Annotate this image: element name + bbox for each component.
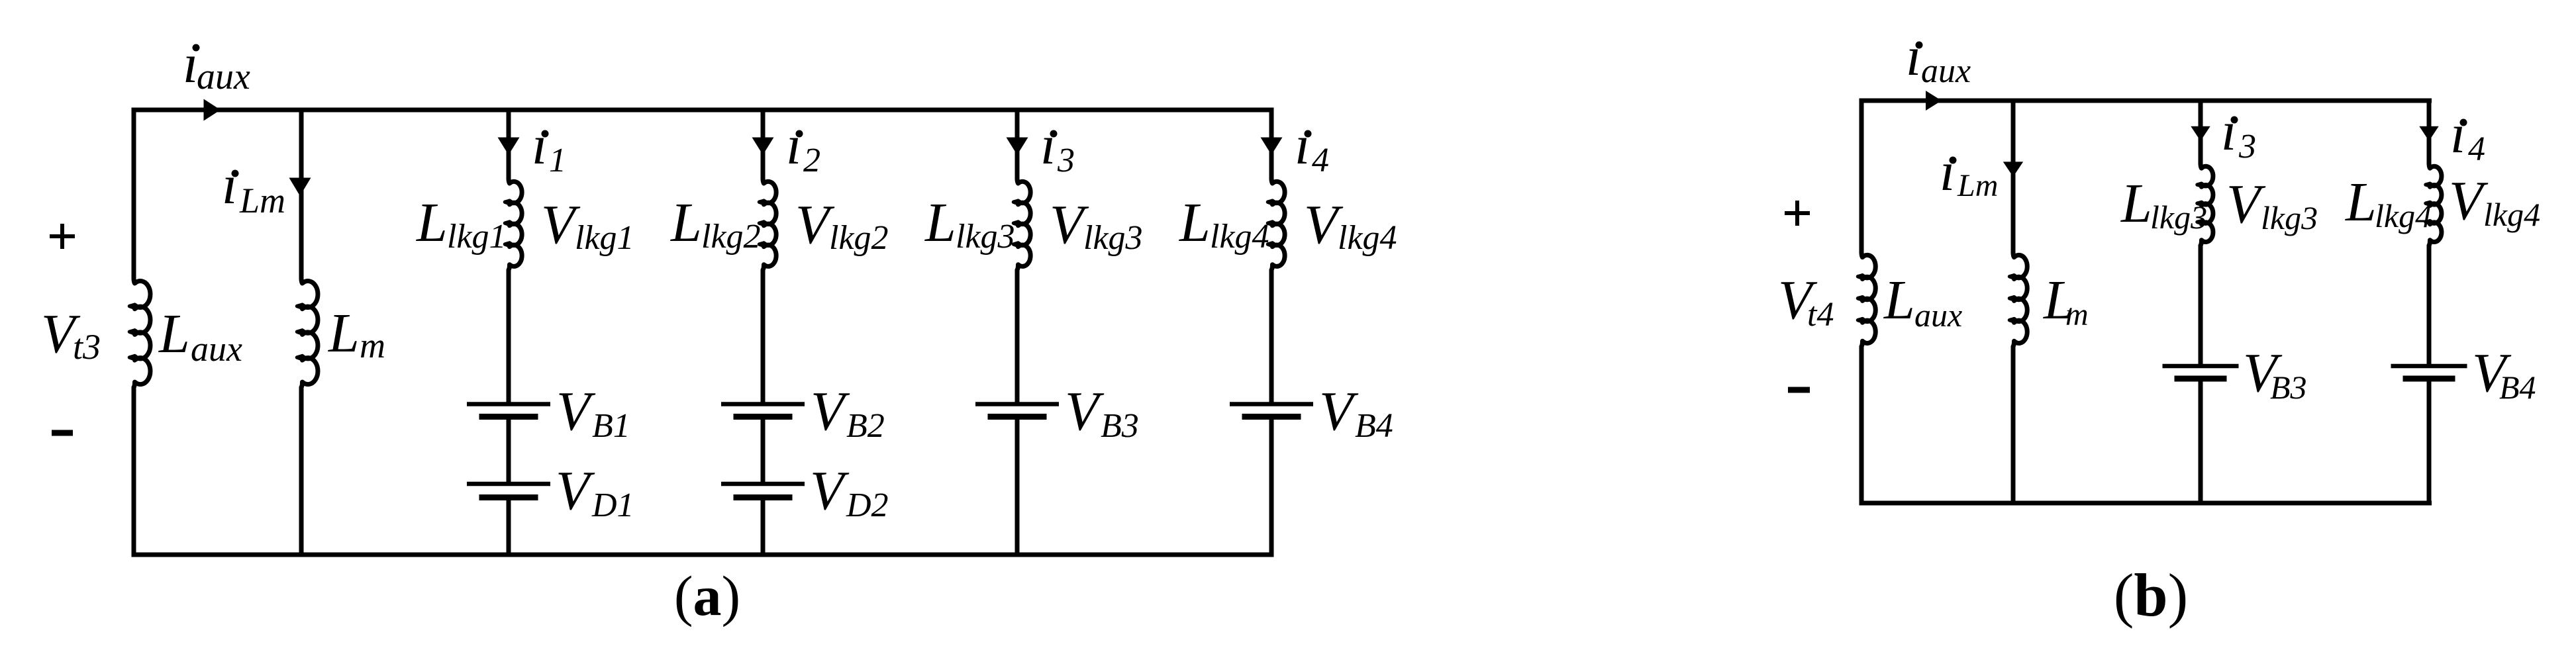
battery VB1 (a) xyxy=(467,402,550,406)
inductor Llkg4 (a) xyxy=(1271,178,1285,270)
svg-text:L: L xyxy=(158,303,190,365)
svg-text:lkg3: lkg3 xyxy=(2261,199,2318,236)
inductor Lm (b) xyxy=(2013,252,2027,347)
wire: branch 2 upper (a) xyxy=(761,110,766,179)
wire: circuit (b) bottom rail xyxy=(1861,346,2432,503)
svg-text:L: L xyxy=(2120,173,2152,234)
svg-text:ı: ı xyxy=(1295,115,1310,176)
svg-text:V: V xyxy=(810,460,850,522)
svg-text:ı: ı xyxy=(532,115,547,176)
svg-text:lkg1: lkg1 xyxy=(447,218,507,255)
wire: branch 3 upper (b) xyxy=(2199,101,2203,164)
arrow i_3 (b) xyxy=(2191,126,2210,141)
wire: circuit (a) top rail xyxy=(134,110,1274,279)
svg-text:D1: D1 xyxy=(591,487,634,524)
svg-text:ı: ı xyxy=(1906,26,1921,87)
svg-text:B4: B4 xyxy=(2499,369,2536,406)
svg-text:lkg4: lkg4 xyxy=(2483,196,2540,233)
label minus (a) xyxy=(52,430,73,436)
arrow i_2 (a) xyxy=(752,138,774,156)
svg-text:aux: aux xyxy=(197,56,250,97)
svg-text:ı: ı xyxy=(183,33,198,95)
wire: branch 1 upper (a) xyxy=(507,110,511,179)
wire: branch 4 lower (a) xyxy=(1269,420,1274,555)
inductor Llkg2 (a) xyxy=(763,178,776,270)
battery VB2 (a) xyxy=(721,402,805,406)
svg-text:(a): (a) xyxy=(674,564,740,627)
svg-text:ı: ı xyxy=(1940,141,1955,203)
svg-text:lkg2: lkg2 xyxy=(829,219,889,257)
wire: branch 2 mid (a) xyxy=(761,270,766,402)
svg-text:L: L xyxy=(670,192,702,254)
wire: branch 3 mid (a) xyxy=(1015,270,1020,402)
svg-text:V: V xyxy=(1065,381,1105,442)
svg-text:lkg4: lkg4 xyxy=(1210,218,1269,255)
svg-text:(b): (b) xyxy=(2114,561,2188,629)
svg-text:lkg3: lkg3 xyxy=(1083,219,1143,257)
svg-text:L: L xyxy=(328,302,360,364)
svg-text:aux: aux xyxy=(191,329,242,369)
svg-text:Lm: Lm xyxy=(239,181,285,220)
inductor Llkg4 (b) xyxy=(2429,163,2442,246)
svg-text:B3: B3 xyxy=(1101,407,1139,445)
svg-text:aux: aux xyxy=(1921,52,1971,90)
arrow i_aux (a) xyxy=(204,99,221,121)
svg-text:B3: B3 xyxy=(2270,369,2307,406)
inductor Laux (a) xyxy=(134,278,150,387)
svg-text:lkg4: lkg4 xyxy=(1338,219,1397,257)
svg-text:t4: t4 xyxy=(1807,296,1834,334)
svg-text:Lm: Lm xyxy=(1957,168,1998,203)
wire: branch 2 between batteries (a) xyxy=(761,420,766,483)
inductor Lm (a) xyxy=(301,278,318,387)
wire: Lm branch upper (b) xyxy=(2011,101,2016,254)
svg-text:ı: ı xyxy=(2450,103,2465,165)
label + (b) xyxy=(1785,201,1810,226)
arrow i_aux (b) xyxy=(1926,91,1942,111)
wire: Lm branch upper (a) xyxy=(299,110,304,279)
inductor Laux (b) xyxy=(1861,252,1875,347)
svg-text:L: L xyxy=(924,192,956,254)
battery VB3 (b) xyxy=(2163,364,2239,369)
svg-text:t3: t3 xyxy=(73,327,101,367)
wire: branch 1 between batteries (a) xyxy=(507,420,511,483)
svg-text:D2: D2 xyxy=(846,487,889,524)
inductor Llkg1 (a) xyxy=(509,178,522,270)
battery VD1 (a) xyxy=(467,482,550,487)
battery VB3 (a) xyxy=(975,402,1059,406)
svg-text:V: V xyxy=(811,381,850,442)
svg-text:lkg3: lkg3 xyxy=(956,218,1015,255)
wire: branch 1 mid (a) xyxy=(507,270,511,402)
battery VB4 (b) xyxy=(2391,364,2467,369)
svg-text:1: 1 xyxy=(549,142,566,179)
inductor Llkg3 (b) xyxy=(2201,163,2213,246)
arrow i_Lm (a) xyxy=(289,178,311,197)
wire: branch 3 lower (a) xyxy=(1015,420,1020,555)
svg-text:lkg4: lkg4 xyxy=(2375,197,2432,234)
svg-text:aux: aux xyxy=(1914,297,1962,334)
svg-text:V: V xyxy=(2226,173,2266,235)
svg-text:L: L xyxy=(1883,269,1915,331)
svg-text:lkg2: lkg2 xyxy=(701,218,761,255)
svg-text:L: L xyxy=(2345,171,2377,233)
svg-text:lkg1: lkg1 xyxy=(575,219,634,257)
svg-text:B4: B4 xyxy=(1355,407,1393,445)
svg-text:ı: ı xyxy=(222,154,237,216)
wire: Lm branch lower (a) xyxy=(299,387,304,555)
svg-text:3: 3 xyxy=(1057,142,1075,179)
wire: branch 4 mid (b) xyxy=(2427,246,2432,364)
arrow i_Lm (b) xyxy=(2003,162,2023,177)
svg-text:V: V xyxy=(556,381,596,442)
svg-text:V: V xyxy=(1319,381,1359,442)
svg-text:4: 4 xyxy=(1312,142,1329,179)
wire: branch 2 lower (a) xyxy=(761,500,766,555)
wire: branch 4 mid (a) xyxy=(1269,270,1274,402)
svg-text:lkg3: lkg3 xyxy=(2150,199,2207,236)
svg-text:ı: ı xyxy=(786,115,801,176)
svg-text:V: V xyxy=(556,460,595,522)
wire: branch 4 lower (b) xyxy=(2427,381,2432,503)
wire: branch 3 lower (b) xyxy=(2199,381,2203,503)
arrow i_1 (a) xyxy=(498,138,520,156)
wire: branch 4 upper (a) xyxy=(1269,110,1274,179)
svg-text:V: V xyxy=(2449,170,2489,232)
arrow i_3 (a) xyxy=(1007,138,1028,156)
wire: circuit (b) top rail xyxy=(1861,101,2432,254)
wire: branch 1 lower (a) xyxy=(507,500,511,555)
wire: branch 3 upper (a) xyxy=(1015,110,1020,179)
wire: branch 3 mid (b) xyxy=(2199,246,2203,364)
arrow i_4 (b) xyxy=(2419,126,2438,141)
arrow i_4 (a) xyxy=(1261,138,1283,156)
svg-text:L: L xyxy=(416,192,448,254)
svg-text:m: m xyxy=(360,326,385,365)
svg-text:ı: ı xyxy=(2221,101,2236,162)
wire: branch 4 upper (b) xyxy=(2427,101,2432,164)
svg-text:L: L xyxy=(1179,192,1211,254)
wire: Lm branch lower (b) xyxy=(2011,346,2016,503)
battery VD2 (a) xyxy=(721,482,805,487)
svg-text:ı: ı xyxy=(1040,115,1056,176)
svg-text:B2: B2 xyxy=(846,407,885,445)
svg-text:B1: B1 xyxy=(592,407,630,445)
svg-text:4: 4 xyxy=(2468,130,2485,168)
label + (a) xyxy=(50,224,75,249)
label minus (b) xyxy=(1788,387,1810,393)
inductor Llkg3 (a) xyxy=(1017,178,1030,270)
svg-text:m: m xyxy=(2065,297,2089,332)
svg-text:2: 2 xyxy=(803,142,820,179)
battery VB4 (a) xyxy=(1230,402,1313,406)
wire: circuit (a) bottom rail xyxy=(134,387,1274,555)
svg-text:3: 3 xyxy=(2238,128,2256,165)
